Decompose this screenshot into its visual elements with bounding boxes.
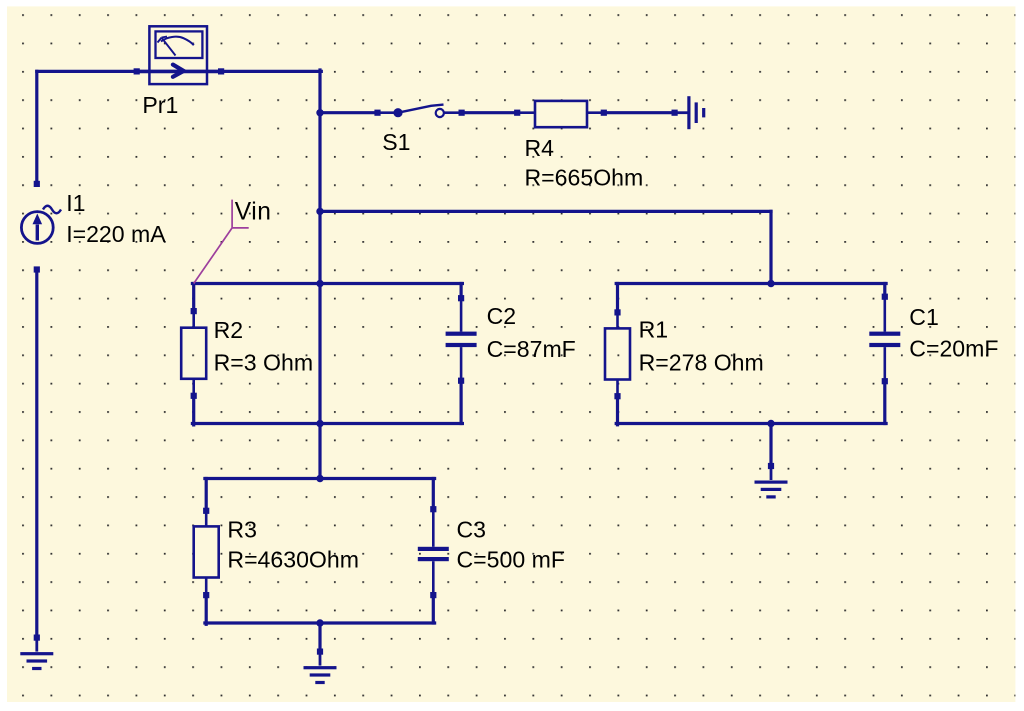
wire — [205, 595, 208, 624]
wire — [883, 381, 886, 423]
svg-text:I=220 mA: I=220 mA — [66, 221, 166, 247]
pin — [601, 110, 607, 116]
svg-text:C=87mF: C=87mF — [487, 336, 576, 362]
pin — [768, 463, 774, 469]
svg-text:Pr1: Pr1 — [142, 92, 178, 118]
svg-text:R3: R3 — [227, 516, 257, 542]
wire — [462, 111, 518, 114]
pin — [672, 110, 678, 116]
wire — [205, 479, 208, 511]
svg-text:C=20mF: C=20mF — [909, 336, 998, 362]
junction — [767, 420, 774, 427]
svg-text:R1: R1 — [639, 317, 669, 343]
svg-text:R2: R2 — [214, 317, 244, 343]
wire — [35, 270, 38, 638]
svg-text:I1: I1 — [66, 190, 85, 216]
pin — [514, 110, 520, 116]
wire — [192, 396, 195, 425]
wire — [205, 621, 435, 624]
pin — [459, 110, 465, 116]
wire — [460, 284, 463, 299]
pin — [191, 393, 197, 399]
wire — [616, 284, 619, 313]
wire — [205, 477, 435, 480]
pin — [317, 649, 323, 655]
wire — [616, 396, 619, 425]
node Vin — [194, 200, 249, 284]
pin — [614, 393, 620, 399]
wire — [318, 425, 321, 480]
pin — [430, 506, 436, 512]
switch S1 — [378, 105, 462, 118]
junction — [316, 280, 323, 287]
pin — [218, 68, 224, 74]
wire — [604, 111, 675, 114]
wire — [769, 211, 772, 285]
wire — [192, 422, 462, 425]
svg-text:R=665Ohm: R=665Ohm — [525, 165, 644, 191]
junction — [316, 619, 323, 626]
svg-text:C=500 mF: C=500 mF — [457, 547, 565, 573]
wire — [318, 285, 321, 425]
pin — [882, 294, 888, 300]
pin — [34, 181, 40, 187]
wire — [318, 70, 321, 285]
wire — [883, 284, 886, 297]
svg-text:S1: S1 — [382, 129, 410, 155]
junction — [316, 208, 323, 215]
svg-text:R4: R4 — [525, 135, 555, 161]
pin — [203, 592, 209, 598]
resistor R4 — [517, 101, 604, 127]
svg-text:C3: C3 — [457, 516, 487, 542]
wire — [320, 210, 771, 213]
svg-text:Vin: Vin — [235, 199, 272, 226]
wire — [220, 70, 321, 73]
wire — [460, 381, 463, 424]
wire — [192, 284, 195, 312]
pin — [34, 635, 40, 641]
capacitor C3 — [418, 509, 449, 595]
svg-text:R=4630Ohm: R=4630Ohm — [227, 547, 359, 573]
resistor R2 — [181, 311, 206, 396]
junction — [316, 475, 323, 482]
pin — [374, 110, 380, 116]
junction — [316, 109, 323, 116]
junction — [767, 280, 774, 287]
pin — [614, 309, 620, 315]
junction — [316, 420, 323, 427]
wire — [318, 623, 321, 652]
ac current source I1 — [21, 206, 61, 244]
wire — [37, 70, 138, 73]
wire — [616, 282, 886, 285]
pin — [134, 68, 140, 74]
pin — [430, 592, 436, 598]
ground — [304, 652, 337, 685]
ground — [755, 466, 788, 499]
pin — [458, 295, 464, 301]
resistor R3 — [194, 511, 219, 595]
wire — [432, 479, 435, 510]
wire — [432, 595, 435, 623]
wire — [35, 71, 38, 183]
capacitor C1 — [869, 297, 900, 382]
pin — [882, 378, 888, 384]
ground — [20, 638, 53, 671]
pin — [458, 378, 464, 384]
pin — [191, 308, 197, 314]
ground — [675, 96, 706, 129]
capacitor C2 — [446, 298, 477, 381]
wire — [320, 111, 378, 114]
pin — [34, 266, 40, 272]
svg-text:C1: C1 — [909, 304, 939, 330]
ammeter probe Pr1 — [138, 26, 220, 84]
resistor R1 — [605, 312, 630, 396]
wire — [616, 422, 886, 425]
wire — [192, 282, 462, 285]
svg-text:R=278 Ohm: R=278 Ohm — [639, 349, 764, 375]
pin — [203, 508, 209, 514]
svg-text:C2: C2 — [487, 303, 517, 329]
wire — [769, 424, 772, 467]
svg-text:R=3 Ohm: R=3 Ohm — [214, 350, 313, 376]
